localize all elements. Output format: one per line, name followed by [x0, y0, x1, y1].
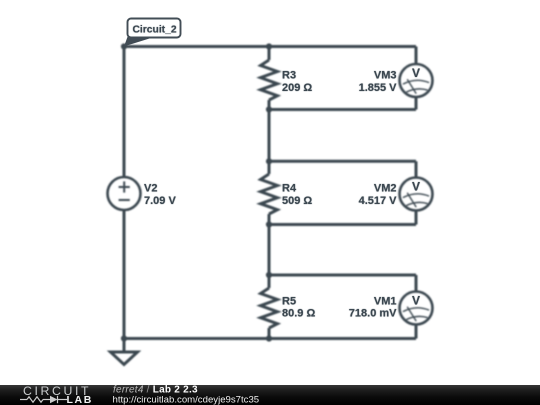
svg-text:1.855 V: 1.855 V: [359, 82, 398, 94]
junction ground node: [121, 335, 127, 341]
ground: [111, 339, 138, 365]
wire R5 bottom lead: [268, 328, 271, 339]
junction R4 top: [266, 158, 272, 164]
svg-text:7.09 V: 7.09 V: [144, 195, 176, 207]
svg-text:509 Ω: 509 Ω: [282, 195, 312, 207]
wire VM3 bottom lead: [415, 97, 418, 110]
wire VM3 top lead: [415, 47, 418, 65]
svg-text:LAB: LAB: [67, 394, 93, 405]
wire row2 bottom horizontal: [269, 223, 416, 226]
svg-text:718.0 mV: 718.0 mV: [349, 308, 397, 320]
wire left vertical lower (V2 bottom to ground node): [123, 210, 126, 339]
svg-text:Circuit_2: Circuit_2: [133, 25, 177, 36]
svg-text:V2: V2: [144, 183, 157, 195]
svg-text:V: V: [412, 294, 420, 308]
wire left vertical upper (node to V2 top): [123, 47, 126, 178]
svg-text:R4: R4: [282, 183, 297, 195]
svg-text:VM1: VM1: [374, 296, 397, 308]
svg-text:80.9 Ω: 80.9 Ω: [282, 308, 315, 320]
junction at top-left node: [121, 43, 127, 49]
junction top wire / R3: [266, 43, 272, 49]
resistor R4: [261, 174, 278, 214]
node Circuit_2 flag bubble: [124, 19, 181, 47]
wire VM1 bottom lead: [415, 325, 418, 339]
resistor R5: [261, 288, 278, 328]
footer bar: [0, 385, 540, 405]
junction R3 bottom: [266, 106, 272, 112]
svg-text:R3: R3: [282, 70, 296, 82]
svg-text:V: V: [412, 180, 420, 194]
svg-text:4.517 V: 4.517 V: [359, 195, 398, 207]
resistor R3: [261, 60, 278, 100]
svg-text:V: V: [412, 66, 420, 80]
svg-text:209 Ω: 209 Ω: [282, 82, 312, 94]
wire row1 bottom horizontal: [269, 108, 416, 111]
junction R5 top: [266, 272, 272, 278]
wire row3 top horizontal: [269, 274, 416, 277]
wire bottom horizontal net: [124, 337, 416, 340]
wire row2 top horizontal: [269, 160, 416, 163]
svg-text:http://circuitlab.com/cdeyje9s: http://circuitlab.com/cdeyje9s7tc35: [113, 395, 260, 405]
wire VM2 top lead: [415, 161, 418, 177]
wire VM1 top lead: [415, 275, 418, 292]
CircuitLab logo schematic line with resistor and diode: [20, 396, 67, 403]
junction R4 bottom: [266, 221, 272, 227]
voltage source V2: [108, 177, 141, 210]
voltmeter VM3: [400, 64, 433, 97]
voltmeter VM1: [400, 292, 433, 325]
wire top horizontal net from node to VM3: [124, 45, 416, 48]
wire R3 bottom to R4 top: [268, 100, 271, 174]
svg-text:VM3: VM3: [374, 70, 397, 82]
wire R3 top lead: [268, 47, 271, 61]
svg-text:VM2: VM2: [374, 183, 397, 195]
voltmeter VM2: [400, 178, 433, 211]
wire R4 bottom to R5 top: [268, 214, 271, 288]
wire VM2 bottom lead: [415, 211, 418, 225]
svg-text:R5: R5: [282, 296, 296, 308]
junction R5 bottom: [266, 335, 272, 341]
